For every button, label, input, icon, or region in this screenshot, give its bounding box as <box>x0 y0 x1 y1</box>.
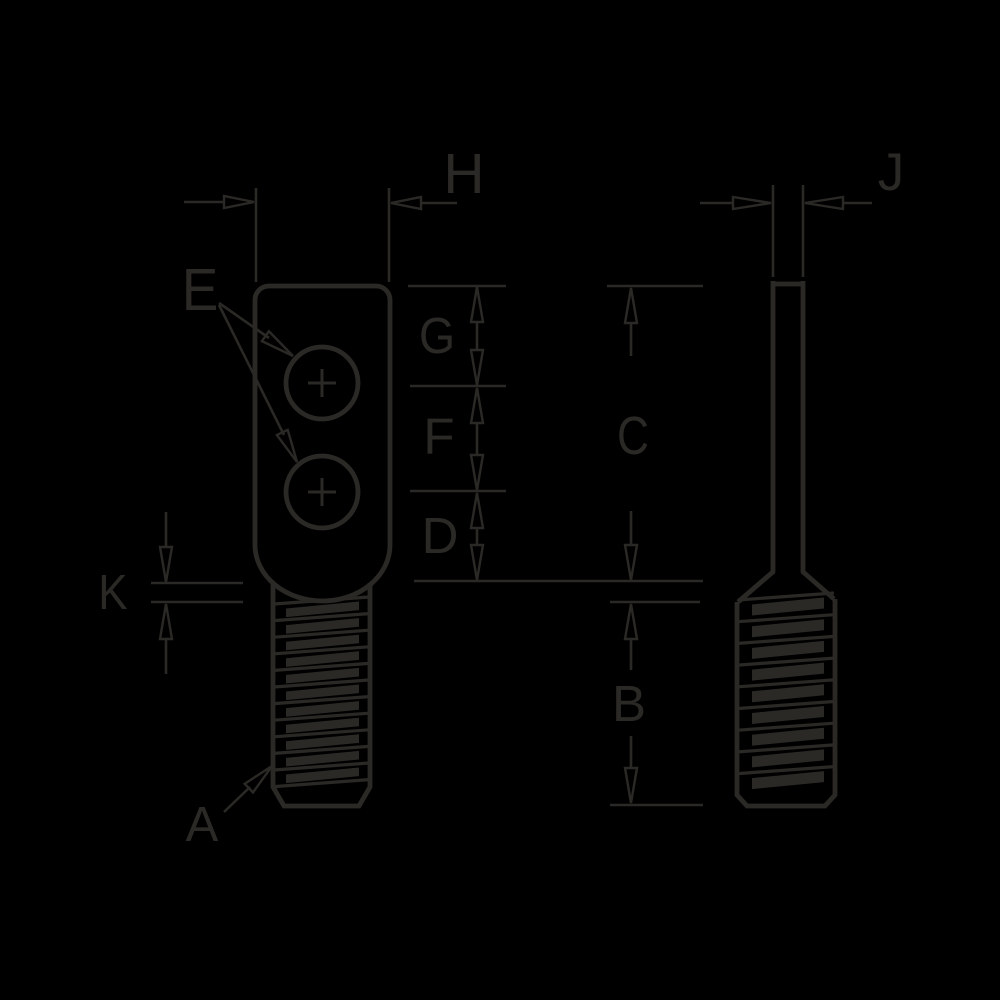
cross in hole E1 <box>308 369 336 397</box>
lug body outline with U bottom (front view) <box>255 286 390 601</box>
K arrowhead down <box>160 547 172 582</box>
front stud outline <box>273 583 370 806</box>
D arrowhead down <box>471 545 483 580</box>
K arrowhead up <box>160 604 172 639</box>
K lower line <box>151 601 243 604</box>
F arrowhead up <box>471 388 483 423</box>
cross in hole E2 <box>308 478 336 506</box>
B bottom reference line <box>610 804 703 807</box>
svg-text:H: H <box>443 142 484 206</box>
C top reference line <box>607 285 703 288</box>
width dim arrowhead right <box>391 197 421 209</box>
svg-text:F: F <box>423 408 454 465</box>
B arrowhead down <box>625 768 637 803</box>
G top reference line <box>408 285 506 288</box>
svg-text:C: C <box>617 406 649 466</box>
H extension line left <box>255 188 258 282</box>
front stud thread crest lines <box>274 597 369 604</box>
J dim arrow left tail <box>700 202 733 205</box>
C lower arrow shaft <box>630 511 633 546</box>
F arrowhead down <box>471 455 483 490</box>
side stud thread crest lines <box>738 593 834 600</box>
E leader arrowhead 1 <box>262 331 293 356</box>
G arrowhead down <box>471 350 483 385</box>
D arrowhead up <box>471 493 483 528</box>
B upper arrow shaft <box>630 639 633 670</box>
svg-text:G: G <box>419 308 455 364</box>
pin outline (side view) <box>773 281 803 572</box>
width dim arrow left tail <box>184 201 224 204</box>
B top reference line <box>610 601 700 604</box>
C upper arrow shaft <box>630 323 633 356</box>
long reference line at lug bottom <box>414 580 703 583</box>
screw hole E2 <box>286 456 358 528</box>
E leader line 1 <box>219 303 269 338</box>
K upper arrow shaft <box>165 512 168 546</box>
width dim arrowhead left <box>224 196 254 208</box>
F arrow shaft <box>476 424 479 454</box>
K upper line <box>151 582 243 585</box>
K lower arrow shaft <box>165 640 168 674</box>
C arrowhead down <box>625 545 637 580</box>
F bottom reference line <box>410 490 506 493</box>
svg-text:A: A <box>186 798 219 852</box>
J extension line left <box>772 185 775 277</box>
width dim arrow right tail <box>421 202 457 205</box>
H extension line right <box>388 188 391 282</box>
screw hole E1 <box>286 347 358 419</box>
G arrow shaft <box>476 322 479 350</box>
front stud thread bars <box>286 602 359 618</box>
svg-text:D: D <box>422 507 459 564</box>
E leader line 2 <box>219 305 284 435</box>
side-view flare shoulders <box>738 571 834 602</box>
svg-text:B: B <box>612 675 646 732</box>
J arrowhead left <box>733 197 771 209</box>
D arrow shaft <box>476 528 479 545</box>
J arrowhead right <box>805 197 843 209</box>
svg-text:K: K <box>98 565 127 620</box>
G bottom reference line <box>410 385 506 388</box>
side stud thread bars <box>752 598 824 616</box>
B arrowhead up <box>625 604 637 639</box>
J extension line right <box>802 185 805 277</box>
B lower arrow shaft <box>630 736 633 769</box>
E leader arrowhead 2 <box>277 430 297 462</box>
C arrowhead up <box>625 288 637 323</box>
svg-text:E: E <box>182 257 219 323</box>
A leader arrowhead <box>245 766 272 793</box>
svg-text:J: J <box>878 143 905 202</box>
J dim arrow right tail <box>843 202 872 205</box>
side stud outline <box>737 599 835 806</box>
A leader line <box>224 787 250 812</box>
G arrowhead up <box>471 287 483 322</box>
